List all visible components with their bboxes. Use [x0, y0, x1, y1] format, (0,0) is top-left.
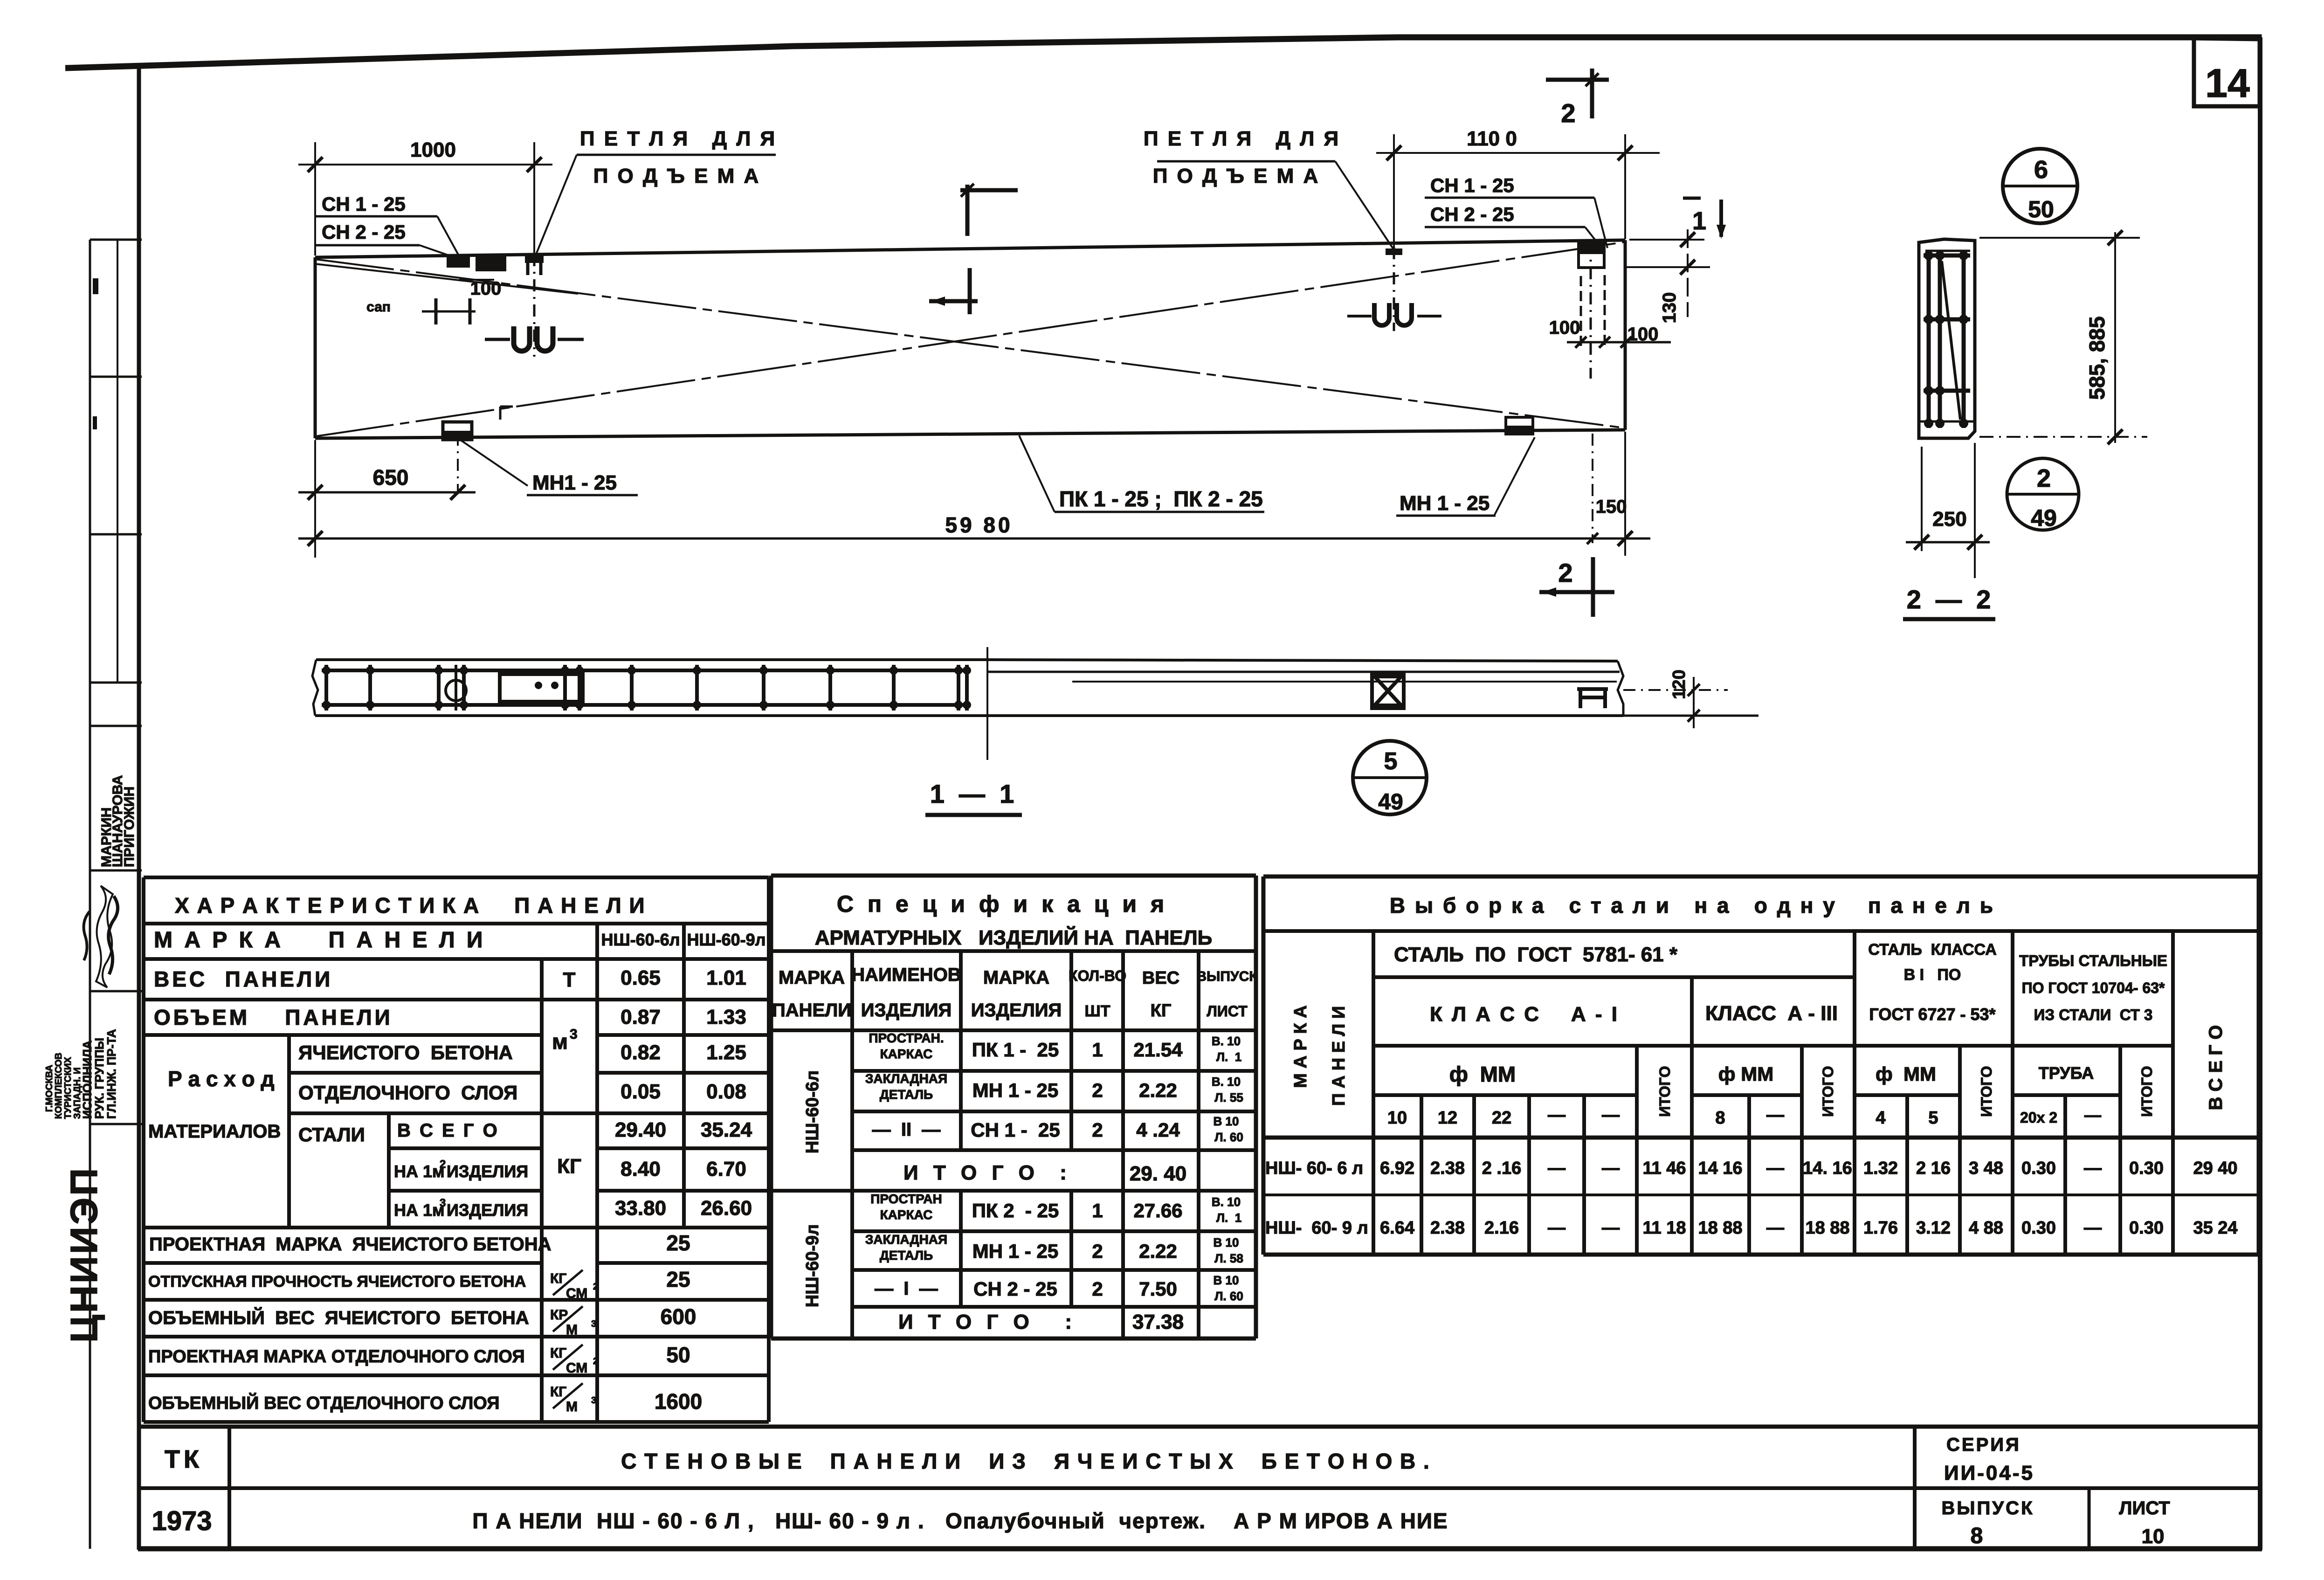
- svg-text:0.30: 0.30: [2129, 1218, 2164, 1238]
- svg-text:120: 120: [1669, 669, 1689, 699]
- svg-text:М: М: [566, 1322, 578, 1338]
- svg-text:33.80: 33.80: [615, 1197, 666, 1220]
- svg-text:4 88: 4 88: [1969, 1218, 2003, 1238]
- svg-text:21.54: 21.54: [1133, 1039, 1183, 1061]
- svg-text:100: 100: [1549, 317, 1580, 338]
- svg-text:29.40: 29.40: [615, 1118, 666, 1141]
- svg-text:КГ: КГ: [550, 1271, 566, 1286]
- svg-text:ТК: ТК: [165, 1445, 203, 1473]
- svg-text:КАРКАС: КАРКАС: [880, 1047, 933, 1061]
- svg-text:11 46: 11 46: [1643, 1159, 1686, 1178]
- svg-text:10: 10: [1387, 1108, 1407, 1128]
- svg-text:Л. 55: Л. 55: [1214, 1090, 1243, 1104]
- svg-text:650: 650: [373, 465, 409, 490]
- svg-text:1000: 1000: [410, 138, 456, 161]
- svg-text:И Т О Г О :: И Т О Г О :: [903, 1161, 1071, 1184]
- svg-text:К Л А С С А - І: К Л А С С А - І: [1430, 1003, 1619, 1026]
- svg-text:2.38: 2.38: [1430, 1159, 1465, 1178]
- svg-text:35.24: 35.24: [701, 1118, 752, 1141]
- svg-text:В. 10: В. 10: [1212, 1195, 1241, 1209]
- svg-text:600: 600: [661, 1304, 697, 1329]
- svg-text:ПРОСТРАН: ПРОСТРАН: [870, 1192, 942, 1206]
- svg-text:1600: 1600: [655, 1389, 702, 1414]
- svg-text:100: 100: [1627, 324, 1659, 345]
- svg-text:—: —: [1602, 1218, 1620, 1238]
- svg-text:М А Р К А: М А Р К А: [1291, 1005, 1310, 1088]
- svg-text:ЛИСТ: ЛИСТ: [2119, 1498, 2170, 1518]
- svg-text:2 16: 2 16: [1916, 1159, 1951, 1178]
- svg-text:3: 3: [591, 1395, 596, 1406]
- svg-text:0.30: 0.30: [2129, 1159, 2164, 1178]
- svg-text:2: 2: [1092, 1240, 1103, 1262]
- svg-text:—: —: [1602, 1159, 1620, 1178]
- svg-text:ОТПУСКНАЯ ПРОЧНОСТЬ ЯЧЕИСТОГО: ОТПУСКНАЯ ПРОЧНОСТЬ ЯЧЕИСТОГО БЕТОНА: [148, 1273, 526, 1290]
- svg-text:МАРКА: МАРКА: [779, 967, 845, 988]
- svg-text:1: 1: [1092, 1200, 1103, 1221]
- svg-text:СН 1 - 25: СН 1 - 25: [1430, 174, 1514, 196]
- svg-text:37.38: 37.38: [1132, 1311, 1184, 1333]
- svg-text:В ы б о р к а с т а л и н: В ы б о р к а с т а л и н а о д н у п а …: [1390, 893, 1995, 918]
- svg-text:ГОСТ 6727 - 53*: ГОСТ 6727 - 53*: [1869, 1005, 1995, 1024]
- svg-text:—: —: [1548, 1218, 1565, 1238]
- svg-text:ПАНЕЛИ: ПАНЕЛИ: [772, 1000, 851, 1021]
- svg-text:1: 1: [1092, 1039, 1103, 1061]
- svg-text:МН1 - 25: МН1 - 25: [532, 471, 617, 494]
- svg-text:100: 100: [470, 278, 502, 299]
- svg-text:АРМАТУРНЫХ ИЗДЕЛИЙ НА ПАНЕЛ: АРМАТУРНЫХ ИЗДЕЛИЙ НА ПАНЕЛЬ: [815, 925, 1213, 949]
- svg-text:ИТОГО: ИТОГО: [1656, 1066, 1673, 1117]
- svg-text:2: 2: [440, 1158, 446, 1171]
- svg-text:СН 2 - 25: СН 2 - 25: [1430, 203, 1514, 225]
- svg-text:ТУРИСТСКИХ: ТУРИСТСКИХ: [63, 1056, 73, 1119]
- svg-text:25: 25: [666, 1267, 690, 1291]
- svg-text:ОБЪЕМНЫЙ ВЕС ЯЧЕИСТОГО БЕТО: ОБЪЕМНЫЙ ВЕС ЯЧЕИСТОГО БЕТОНА: [148, 1307, 529, 1328]
- svg-text:В І ПО: В І ПО: [1904, 966, 1961, 984]
- svg-text:В. 10: В. 10: [1212, 1034, 1241, 1048]
- svg-text:—: —: [2084, 1218, 2102, 1238]
- svg-text:ПК 2 - 25: ПК 2 - 25: [972, 1200, 1059, 1221]
- svg-text:П А Н Е Л И: П А Н Е Л И: [1329, 1006, 1349, 1106]
- svg-text:0.05: 0.05: [621, 1080, 661, 1103]
- svg-text:6.70: 6.70: [706, 1158, 746, 1180]
- svg-text:29 40: 29 40: [2193, 1159, 2237, 1178]
- svg-text:Х А Р А К Т Е Р И С Т И К А: Х А Р А К Т Е Р И С Т И К А П А Н Е Л И: [175, 893, 646, 918]
- svg-text:— І —: — І —: [875, 1278, 938, 1299]
- svg-text:ИЗДЕЛИЯ: ИЗДЕЛИЯ: [861, 1000, 952, 1021]
- svg-text:НШ-60-9л: НШ-60-9л: [803, 1224, 822, 1307]
- svg-text:18 88: 18 88: [1698, 1218, 1742, 1238]
- svg-text:П О Д Ъ Е М А: П О Д Ъ Е М А: [593, 165, 761, 187]
- svg-text:0.87: 0.87: [621, 1006, 661, 1028]
- svg-text:КОМПЛЕКСОВ: КОМПЛЕКСОВ: [54, 1053, 64, 1119]
- svg-text:НШ- 60- 9 л: НШ- 60- 9 л: [1265, 1218, 1368, 1238]
- svg-text:2 .16: 2 .16: [1482, 1159, 1522, 1178]
- svg-text:25: 25: [666, 1231, 690, 1255]
- svg-text:ИТОГО: ИТОГО: [1978, 1066, 1995, 1117]
- svg-text:1.25: 1.25: [706, 1041, 746, 1064]
- svg-text:И Т О Г О :: И Т О Г О :: [898, 1311, 1076, 1333]
- svg-text:МАРКА: МАРКА: [983, 967, 1049, 988]
- svg-text:ВЫПУСК: ВЫПУСК: [1942, 1498, 2034, 1518]
- svg-text:3: 3: [591, 1319, 596, 1329]
- svg-text:ф ММ: ф ММ: [1718, 1063, 1773, 1085]
- svg-text:6.64: 6.64: [1380, 1218, 1414, 1238]
- svg-text:—: —: [1766, 1159, 1784, 1178]
- svg-text:ЗАКЛАДНАЯ: ЗАКЛАДНАЯ: [865, 1232, 947, 1247]
- svg-text:П Е Т Л Я Д Л Я: П Е Т Л Я Д Л Я: [580, 127, 777, 150]
- svg-text:КГ: КГ: [1151, 1001, 1172, 1021]
- svg-text:8: 8: [1715, 1108, 1725, 1128]
- svg-text:СМ: СМ: [566, 1286, 587, 1301]
- svg-text:ПО ГОСТ 10704- 63*: ПО ГОСТ 10704- 63*: [2022, 980, 2165, 996]
- svg-text:НА 1м: НА 1м: [394, 1201, 445, 1220]
- svg-text:Л. 60: Л. 60: [1214, 1130, 1243, 1144]
- svg-text:130: 130: [1659, 292, 1680, 324]
- svg-text:5: 5: [1928, 1108, 1938, 1128]
- svg-text:7.50: 7.50: [1139, 1278, 1177, 1300]
- svg-text:ШТ: ШТ: [1085, 1002, 1110, 1020]
- svg-text:КГ: КГ: [550, 1384, 566, 1400]
- svg-text:ЗАПАДН. И: ЗАПАДН. И: [72, 1068, 83, 1119]
- svg-text:В С Е Г О: В С Е Г О: [397, 1120, 499, 1141]
- svg-text:ЗАКЛАДНАЯ: ЗАКЛАДНАЯ: [865, 1071, 947, 1086]
- svg-text:49: 49: [2031, 505, 2057, 531]
- svg-text:ПК 1 - 25 ; ПК 2 - 25: ПК 1 - 25 ; ПК 2 - 25: [1059, 487, 1263, 511]
- svg-text:Г.МОСКВА: Г.МОСКВА: [44, 1065, 55, 1112]
- svg-text:10: 10: [2142, 1525, 2165, 1548]
- svg-text:ф ММ: ф ММ: [1449, 1062, 1516, 1086]
- svg-text:20х 2: 20х 2: [2020, 1109, 2057, 1126]
- svg-text:1.32: 1.32: [1863, 1159, 1898, 1178]
- svg-text:50: 50: [666, 1343, 690, 1367]
- svg-text:—: —: [1548, 1105, 1565, 1125]
- svg-text:0.82: 0.82: [621, 1041, 661, 1064]
- svg-text:НШ-60-9л: НШ-60-9л: [687, 930, 765, 949]
- svg-text:ОБЪЕМНЫЙ ВЕС ОТДЕЛОЧНОГО СЛОЯ: ОБЪЕМНЫЙ ВЕС ОТДЕЛОЧНОГО СЛОЯ: [148, 1392, 500, 1413]
- svg-text:П А НЕЛИ НШ - 60 - 6 Л , НШ: П А НЕЛИ НШ - 60 - 6 Л , НШ- 60 - 9 л . …: [472, 1509, 1448, 1533]
- svg-text:14 16: 14 16: [1698, 1159, 1742, 1178]
- svg-text:В. 10: В. 10: [1212, 1075, 1241, 1089]
- svg-text:КГ: КГ: [557, 1155, 581, 1178]
- svg-text:—: —: [2084, 1105, 2101, 1125]
- svg-text:150: 150: [1596, 497, 1627, 517]
- svg-text:ОТДЕЛОЧНОГО СЛОЯ: ОТДЕЛОЧНОГО СЛОЯ: [298, 1082, 517, 1104]
- svg-text:МАТЕРИАЛОВ: МАТЕРИАЛОВ: [148, 1121, 281, 1142]
- svg-text:ВЫПУСК: ВЫПУСК: [1196, 969, 1258, 984]
- svg-text:ИИ-04-5: ИИ-04-5: [1944, 1462, 2034, 1484]
- svg-text:— ІІ —: — ІІ —: [872, 1119, 941, 1140]
- svg-text:1.76: 1.76: [1863, 1218, 1898, 1238]
- svg-text:12: 12: [1438, 1108, 1457, 1128]
- svg-text:ДЕТАЛЬ: ДЕТАЛЬ: [880, 1087, 933, 1102]
- svg-text:П О Д Ъ Е М А: П О Д Ъ Е М А: [1153, 165, 1320, 187]
- svg-text:РУК. ГРУППЫ: РУК. ГРУППЫ: [92, 1038, 106, 1119]
- svg-text:1973: 1973: [152, 1506, 212, 1536]
- svg-text:59 80: 59 80: [945, 513, 1013, 537]
- svg-text:СН 1 - 25: СН 1 - 25: [322, 193, 406, 215]
- svg-text:0.08: 0.08: [706, 1080, 746, 1103]
- svg-text:ОБЪЕМ ПАНЕЛИ: ОБЪЕМ ПАНЕЛИ: [154, 1005, 393, 1029]
- svg-text:585, 885: 585, 885: [2085, 316, 2109, 400]
- svg-text:6: 6: [2034, 156, 2048, 184]
- svg-text:2: 2: [1558, 558, 1572, 587]
- svg-text:В 10: В 10: [1214, 1114, 1239, 1128]
- svg-text:ИЗДЕЛИЯ: ИЗДЕЛИЯ: [447, 1162, 528, 1181]
- svg-text:2: 2: [593, 1356, 598, 1366]
- svg-text:250: 250: [1932, 508, 1966, 531]
- svg-text:МАРКИН: МАРКИН: [99, 807, 114, 867]
- svg-text:18 88: 18 88: [1805, 1218, 1849, 1238]
- svg-text:14. 16: 14. 16: [1803, 1159, 1852, 1178]
- svg-text:27.66: 27.66: [1133, 1200, 1182, 1221]
- svg-text:Л. 60: Л. 60: [1214, 1289, 1243, 1303]
- svg-text:0.30: 0.30: [2021, 1218, 2056, 1238]
- svg-text:ЯЧЕИСТОГО БЕТОНА: ЯЧЕИСТОГО БЕТОНА: [298, 1042, 513, 1063]
- svg-text:4: 4: [1876, 1108, 1885, 1128]
- svg-text:ВЕС ПАНЕЛИ: ВЕС ПАНЕЛИ: [154, 967, 333, 991]
- svg-text:С Т Е Н О В Ы Е П А Н Е Л И: С Т Е Н О В Ы Е П А Н Е Л И И З Я Ч Е И …: [621, 1449, 1430, 1473]
- svg-text:1.33: 1.33: [706, 1006, 746, 1028]
- svg-text:ЛИСТ: ЛИСТ: [1207, 1003, 1248, 1020]
- svg-text:МН 1 - 25: МН 1 - 25: [972, 1079, 1058, 1101]
- svg-text:КАРКАС: КАРКАС: [880, 1207, 933, 1222]
- svg-text:ИТОГО: ИТОГО: [2138, 1066, 2155, 1117]
- svg-text:3: 3: [440, 1197, 446, 1209]
- svg-text:ДЕТАЛЬ: ДЕТАЛЬ: [880, 1248, 933, 1263]
- svg-text:3.12: 3.12: [1916, 1218, 1951, 1238]
- svg-text:2.38: 2.38: [1430, 1218, 1465, 1238]
- svg-text:2: 2: [1092, 1119, 1103, 1141]
- svg-text:СЕРИЯ: СЕРИЯ: [1946, 1435, 2021, 1455]
- svg-text:5: 5: [1384, 748, 1398, 775]
- svg-text:м: м: [552, 1029, 568, 1054]
- svg-text:Р а с х о д: Р а с х о д: [168, 1067, 275, 1091]
- svg-text:—: —: [1602, 1105, 1620, 1125]
- svg-text:ТРУБА: ТРУБА: [2039, 1063, 2094, 1083]
- svg-text:2: 2: [593, 1282, 598, 1292]
- svg-text:МН 1 - 25: МН 1 - 25: [1400, 492, 1490, 515]
- svg-text:В С Е Г О: В С Е Г О: [2206, 1025, 2226, 1111]
- svg-text:КЛАСС А - ІІІ: КЛАСС А - ІІІ: [1705, 1002, 1838, 1025]
- svg-text:3 48: 3 48: [1969, 1159, 2003, 1178]
- svg-text:СН 2 - 25: СН 2 - 25: [973, 1278, 1057, 1300]
- svg-text:26.60: 26.60: [701, 1197, 752, 1220]
- svg-text:В 10: В 10: [1214, 1273, 1239, 1287]
- svg-text:2: 2: [1561, 98, 1575, 128]
- svg-text:22: 22: [1492, 1108, 1511, 1128]
- svg-text:НА 1м: НА 1м: [394, 1162, 445, 1181]
- svg-text:2 — 2: 2 — 2: [1907, 585, 1991, 614]
- svg-text:ИТОГО: ИТОГО: [1820, 1066, 1836, 1117]
- svg-text:ТРУБЫ СТАЛЬНЫЕ: ТРУБЫ СТАЛЬНЫЕ: [2019, 952, 2167, 969]
- svg-text:КГ: КГ: [550, 1345, 566, 1361]
- svg-text:14: 14: [2205, 61, 2250, 106]
- svg-text:СТАЛИ: СТАЛИ: [298, 1124, 365, 1145]
- svg-text:—: —: [2084, 1159, 2102, 1178]
- svg-text:—: —: [1766, 1218, 1784, 1238]
- svg-text:СТАЛЬ ПО ГОСТ 5781- 61 *: СТАЛЬ ПО ГОСТ 5781- 61 *: [1394, 943, 1678, 966]
- svg-text:0.65: 0.65: [621, 966, 661, 989]
- svg-text:ПРОЕКТНАЯ МАРКА ОТДЕЛОЧНОГО СЛ: ПРОЕКТНАЯ МАРКА ОТДЕЛОЧНОГО СЛОЯ: [148, 1347, 525, 1366]
- svg-text:2: 2: [2037, 464, 2051, 492]
- svg-text:СН 1 - 25: СН 1 - 25: [971, 1119, 1060, 1141]
- svg-text:НШ- 60- 6 л: НШ- 60- 6 л: [1265, 1159, 1363, 1178]
- svg-text:2.22: 2.22: [1139, 1240, 1177, 1262]
- svg-text:СМ: СМ: [566, 1360, 587, 1376]
- svg-text:Л. 1: Л. 1: [1216, 1050, 1241, 1064]
- svg-text:Л. 58: Л. 58: [1214, 1251, 1243, 1265]
- svg-text:сап: сап: [366, 299, 391, 315]
- svg-text:Т: Т: [563, 968, 576, 991]
- svg-text:С п е ц и ф и к а ц и я: С п е ц и ф и к а ц и я: [837, 891, 1168, 917]
- svg-text:ИЗДЕЛИЯ: ИЗДЕЛИЯ: [971, 1000, 1062, 1021]
- svg-text:СТАЛЬ КЛАССА: СТАЛЬ КЛАССА: [1868, 941, 1997, 959]
- svg-text:ПК 1 - 25: ПК 1 - 25: [972, 1039, 1059, 1061]
- svg-text:ЦНИИЭП: ЦНИИЭП: [63, 1166, 105, 1343]
- svg-text:В 10: В 10: [1214, 1235, 1239, 1249]
- svg-text:50: 50: [2028, 196, 2054, 222]
- svg-text:—: —: [1548, 1159, 1565, 1178]
- svg-text:2.22: 2.22: [1139, 1079, 1177, 1101]
- svg-text:11 18: 11 18: [1643, 1218, 1686, 1238]
- svg-text:КОЛ-ВО: КОЛ-ВО: [1069, 967, 1126, 984]
- svg-text:М А Р К А П А Н Е Л И: М А Р К А П А Н Е Л И: [154, 928, 485, 952]
- svg-text:3: 3: [570, 1027, 578, 1042]
- svg-text:49: 49: [1378, 790, 1403, 814]
- svg-text:П Е Т Л Я Д Л Я: П Е Т Л Я Д Л Я: [1144, 127, 1340, 150]
- svg-text:НАИМЕНОВ: НАИМЕНОВ: [851, 965, 961, 985]
- svg-text:29. 40: 29. 40: [1130, 1162, 1186, 1185]
- svg-text:110 0: 110 0: [1467, 127, 1517, 150]
- svg-text:2: 2: [1092, 1278, 1103, 1300]
- svg-text:ГЛ.ИНЖ. ПР-ТА: ГЛ.ИНЖ. ПР-ТА: [104, 1029, 118, 1119]
- svg-text:4 .24: 4 .24: [1136, 1119, 1180, 1141]
- svg-text:ф ММ: ф ММ: [1876, 1063, 1936, 1085]
- svg-text:1: 1: [1692, 207, 1706, 235]
- svg-text:2: 2: [1092, 1079, 1103, 1101]
- svg-text:1 — 1: 1 — 1: [930, 779, 1014, 808]
- svg-text:НШ-60-6л: НШ-60-6л: [803, 1070, 822, 1153]
- svg-text:8.40: 8.40: [621, 1158, 661, 1180]
- svg-text:6.92: 6.92: [1380, 1159, 1414, 1178]
- svg-text:ИЗДЕЛИЯ: ИЗДЕЛИЯ: [447, 1201, 528, 1220]
- svg-text:НШ-60-6л: НШ-60-6л: [601, 930, 680, 949]
- svg-text:ПРОЕКТНАЯ МАРКА ЯЧЕИСТОГО БЕ: ПРОЕКТНАЯ МАРКА ЯЧЕИСТОГО БЕТОНА: [149, 1234, 552, 1255]
- svg-text:ВЕС: ВЕС: [1142, 968, 1179, 988]
- svg-text:1.01: 1.01: [706, 966, 746, 989]
- svg-text:35 24: 35 24: [2193, 1218, 2237, 1238]
- svg-text:МН 1 - 25: МН 1 - 25: [972, 1240, 1058, 1262]
- svg-text:ИЗ СТАЛИ СТ 3: ИЗ СТАЛИ СТ 3: [2034, 1006, 2153, 1023]
- svg-text:—: —: [1766, 1105, 1784, 1125]
- svg-text:Л. 1: Л. 1: [1216, 1211, 1241, 1225]
- svg-text:ПРОСТРАН.: ПРОСТРАН.: [869, 1031, 944, 1045]
- svg-text:М: М: [566, 1399, 578, 1414]
- svg-text:СН 2 - 25: СН 2 - 25: [322, 221, 406, 243]
- svg-text:0.30: 0.30: [2021, 1159, 2056, 1178]
- svg-text:8: 8: [1971, 1524, 1983, 1548]
- svg-text:2.16: 2.16: [1484, 1218, 1519, 1238]
